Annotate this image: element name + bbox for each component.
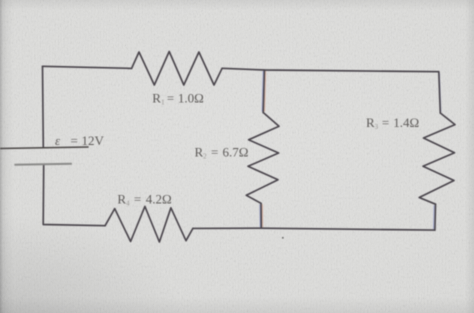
wire: bottom wire right segment (R3 corner to R4, passes R2 bottom node) [193, 228, 435, 230]
wire: R3 bottom vertical (photo fringe) [433, 205, 436, 229]
resistor R2 (6.7 ohm) zigzag [246, 113, 279, 204]
battery B1: short negative plate [14, 164, 72, 165]
wire: top wire from R1 to top-right corner (passes node with R2 branch) [222, 68, 439, 71]
resistor R1 (1.0 ohm) zigzag [132, 52, 223, 86]
wire: from R3 bottom down to bottom-right corner [434, 204, 437, 230]
battery B1: long positive plate (runs to image edge, under the EMF text) [0, 147, 89, 149]
wire: right vertical down to R3 [439, 72, 441, 113]
wire: R2 branch vertical (blue/orange photo fringe) [262, 71, 263, 112]
wire: top wire left segment to R1 [43, 66, 132, 68]
resistor R3 (1.4 ohm) zigzag [419, 113, 455, 204]
svg-text:R1=1.0Ω: R1=1.0Ω [152, 91, 204, 107]
wire: left vertical from battery + plate up to top-left corner [42, 66, 45, 147]
svg-text:R3=1.4Ω: R3=1.4Ω [366, 115, 419, 131]
wire: right vertical (photo fringe) [439, 73, 441, 112]
wire: R2 branch vertical from top wire [263, 70, 264, 113]
wire: R2 bottom vertical to bottom wire [260, 203, 262, 228]
resistor R4 (4.2 ohm) zigzag [105, 206, 193, 242]
wire: R2 bottom vertical (photo fringe) [259, 204, 261, 227]
svg-text:R4=4.2Ω: R4=4.2Ω [117, 192, 171, 208]
wire: bottom wire left segment and up to battery minus plate [43, 164, 105, 225]
svg-text:R2=6.7Ω: R2=6.7Ω [195, 145, 249, 161]
svg-text:ε=12V: ε=12V [55, 133, 105, 148]
